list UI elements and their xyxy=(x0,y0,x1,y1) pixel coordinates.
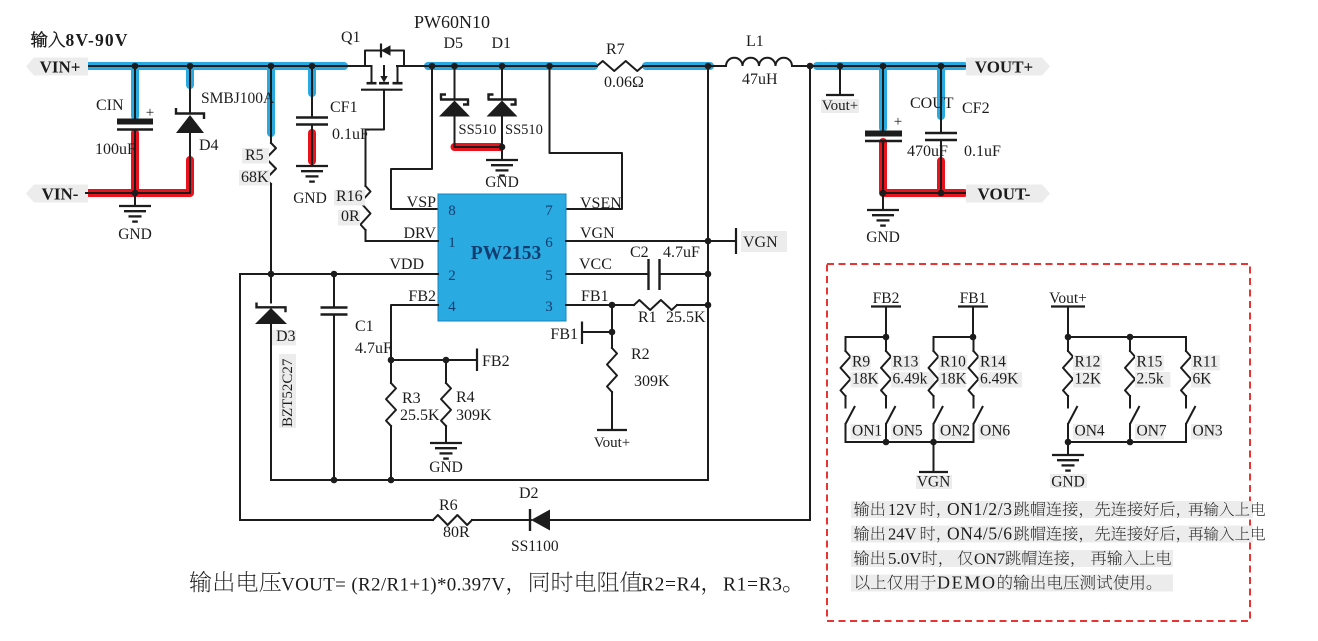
switch ON3 xyxy=(1186,406,1196,424)
junction VDD C1 xyxy=(331,271,338,278)
svg-text:C1: C1 xyxy=(355,318,374,335)
formula text xyxy=(190,571,281,592)
net label VIN- xyxy=(26,185,88,203)
switch ON7 xyxy=(1130,406,1140,424)
net flag FB1 xyxy=(611,305,613,332)
resistor R12 12K xyxy=(1067,337,1069,351)
svg-text:0R: 0R xyxy=(341,208,360,225)
svg-text:VCC: VCC xyxy=(579,256,612,273)
blue highlight CIN lead xyxy=(131,66,139,116)
svg-text:R3: R3 xyxy=(402,390,421,407)
svg-text:VOUT+: VOUT+ xyxy=(975,58,1033,77)
svg-text:R9: R9 xyxy=(852,354,870,371)
svg-text:CF1: CF1 xyxy=(330,99,358,116)
svg-text:18K: 18K xyxy=(852,371,880,388)
net flag FB2 xyxy=(476,349,478,372)
wire VSP sense xyxy=(391,66,438,209)
wire lower reference bus xyxy=(271,479,708,481)
svg-text:25.5K: 25.5K xyxy=(400,407,440,424)
svg-text:4.7uF: 4.7uF xyxy=(663,244,700,261)
dashed demo box xyxy=(827,264,1250,621)
svg-text:GND: GND xyxy=(429,459,463,476)
svg-text:ON3: ON3 xyxy=(1193,423,1223,440)
svg-text:R10: R10 xyxy=(940,354,966,371)
svg-text:VGN: VGN xyxy=(580,225,615,242)
junction CF2 bottom xyxy=(938,190,945,197)
resistor R7 0.06 xyxy=(597,61,643,71)
svg-text:R13: R13 xyxy=(893,354,919,371)
svg-text:R1=R3: R1=R3 xyxy=(723,575,782,596)
blue highlight CF2 stub xyxy=(937,66,945,116)
net label VIN+ xyxy=(26,58,88,76)
svg-text:VIN+: VIN+ xyxy=(40,58,81,77)
resistor R10 18K xyxy=(933,337,935,351)
wire demo GND bus xyxy=(1068,441,1186,443)
junction rail VSEN xyxy=(546,63,553,70)
svg-text:FB2: FB2 xyxy=(408,288,436,305)
wire FB2 bus xyxy=(391,359,477,361)
svg-text:SMBJ100A: SMBJ100A xyxy=(201,90,275,107)
svg-text:12V: 12V xyxy=(888,500,917,519)
op-amp U1 PW2153 xyxy=(438,194,566,321)
svg-text:FB2: FB2 xyxy=(482,353,510,370)
svg-text:309K: 309K xyxy=(456,407,492,424)
svg-text:SS1100: SS1100 xyxy=(511,538,559,555)
svg-text:SS510: SS510 xyxy=(459,122,497,138)
diode D1 SS510 xyxy=(501,66,503,100)
svg-text:FB2: FB2 xyxy=(873,290,900,307)
svg-text:D5: D5 xyxy=(444,35,464,52)
svg-text:R14: R14 xyxy=(980,354,1006,371)
svg-text:80R: 80R xyxy=(443,524,470,541)
svg-text:CIN: CIN xyxy=(96,97,124,114)
note line 2 xyxy=(851,526,1253,543)
red highlight CIN lead xyxy=(131,133,139,192)
svg-text:5: 5 xyxy=(545,268,553,284)
svg-text:D2: D2 xyxy=(519,485,539,502)
net label VOUT- xyxy=(966,185,1050,203)
wire rail R7 to L1 xyxy=(643,65,726,67)
blue highlight CF1 stub xyxy=(308,66,316,93)
svg-text:D3: D3 xyxy=(276,328,296,345)
svg-text:DEMO: DEMO xyxy=(937,573,995,593)
junction rail D1 xyxy=(499,63,506,70)
svg-text:GND: GND xyxy=(485,174,519,191)
red highlight COUT lead xyxy=(879,142,887,192)
junction D5 anode bar xyxy=(455,146,503,148)
capacitor C2 4.7uF xyxy=(647,259,649,290)
svg-text:4: 4 xyxy=(448,299,456,315)
svg-text:VGN: VGN xyxy=(917,474,951,491)
note line 4 xyxy=(851,575,1173,592)
blue highlight VOUT+ rail xyxy=(817,62,964,70)
junction rail D5 xyxy=(451,63,458,70)
junction CIN bottom xyxy=(132,190,139,197)
svg-text:0.06Ω: 0.06Ω xyxy=(604,74,644,91)
wire Q1 gate lead xyxy=(366,90,385,186)
wire VIN- rail xyxy=(86,192,190,194)
red highlight VOUT- rail xyxy=(883,189,964,197)
junction FB2 bus left xyxy=(388,357,395,364)
svg-text:FB1: FB1 xyxy=(960,290,987,307)
svg-text:VIN-: VIN- xyxy=(42,185,79,204)
svg-text:R11: R11 xyxy=(1193,354,1218,371)
svg-text:DRV: DRV xyxy=(404,225,437,242)
wire VDD xyxy=(240,273,438,275)
svg-text:+: + xyxy=(146,105,154,121)
svg-text:ON1: ON1 xyxy=(852,423,882,440)
svg-text:R2=R4: R2=R4 xyxy=(641,575,700,596)
svg-text:Vout+: Vout+ xyxy=(1049,290,1087,307)
svg-text:VOUT-: VOUT- xyxy=(978,185,1031,204)
switch ON4 xyxy=(1068,406,1078,424)
svg-text:R1: R1 xyxy=(638,309,657,326)
junction CF1 top xyxy=(309,63,316,70)
svg-text:BZT52C27: BZT52C27 xyxy=(280,358,296,427)
wire rail L1 to VOUT+ xyxy=(792,65,967,67)
svg-text:ON4/5/6: ON4/5/6 xyxy=(947,524,1012,544)
svg-text:D4: D4 xyxy=(199,137,219,154)
switch ON6 xyxy=(974,406,984,424)
svg-text:100uF: 100uF xyxy=(95,141,136,158)
resistor R13 6.49k xyxy=(885,337,887,351)
blue highlight VIN+ rail xyxy=(88,62,344,70)
svg-text:ON7: ON7 xyxy=(1137,423,1167,440)
resistor R4 309K xyxy=(445,360,447,383)
svg-text:2.5k: 2.5k xyxy=(1137,371,1164,388)
svg-text:24V: 24V xyxy=(888,525,917,544)
wire demo VGN bus xyxy=(846,441,974,443)
svg-text:R6: R6 xyxy=(439,497,458,514)
svg-text:GND: GND xyxy=(293,190,327,207)
red highlight D5 D1 anode bar xyxy=(455,143,501,151)
diode D5 SS510 xyxy=(454,66,456,100)
resistor R2 309K xyxy=(611,332,613,348)
svg-text:0.1uF: 0.1uF xyxy=(964,143,1001,160)
svg-text:0.1uF: 0.1uF xyxy=(332,126,369,143)
wire VCC xyxy=(566,273,649,275)
title 输入8V-90V xyxy=(31,31,65,47)
svg-text:SS510: SS510 xyxy=(505,122,543,138)
blue highlight switch-node rail xyxy=(428,62,594,70)
wire FB1 xyxy=(566,304,634,306)
junction FB2 bus R4 xyxy=(443,357,450,364)
ground GND catch diodes xyxy=(501,147,503,159)
wire FB2 demo bus xyxy=(846,336,887,338)
capacitor CF1 0.1uF xyxy=(311,66,313,118)
net flag Vout+ rail xyxy=(839,66,841,95)
svg-text:6K: 6K xyxy=(1193,371,1213,388)
svg-text:68K: 68K xyxy=(241,169,269,186)
ground GND R4 xyxy=(430,442,462,444)
junction C1 bottom xyxy=(331,477,338,484)
svg-text:R12: R12 xyxy=(1075,354,1101,371)
junction R3 bottom xyxy=(388,477,395,484)
transistor Q1 PW60N10 xyxy=(365,51,404,67)
svg-text:FB1: FB1 xyxy=(550,326,578,343)
resistor R16 0R xyxy=(361,186,371,230)
ground GND CF1 xyxy=(296,165,328,167)
switch ON5 xyxy=(886,406,896,424)
resistor R1 25.5K xyxy=(634,300,677,310)
junction CF2 top xyxy=(938,63,945,70)
svg-text:Vout+: Vout+ xyxy=(822,98,859,114)
junction FB1 xyxy=(609,302,616,309)
svg-text:CF2: CF2 xyxy=(962,100,990,117)
junction switch node xyxy=(705,63,712,70)
capacitor CF2 0.1uF xyxy=(940,66,942,133)
svg-text:D1: D1 xyxy=(492,35,512,52)
svg-text:ON6: ON6 xyxy=(980,423,1010,440)
wire Vout vertical bus xyxy=(809,66,811,520)
svg-text:3: 3 xyxy=(545,299,553,315)
resistor R14 6.49K xyxy=(973,337,975,351)
svg-text:18K: 18K xyxy=(940,371,968,388)
wire VDD feed bus xyxy=(239,274,241,520)
svg-text:25.5K: 25.5K xyxy=(666,309,706,326)
wire Vout+ demo bus xyxy=(1068,336,1186,338)
junction COUT top xyxy=(880,63,887,70)
svg-text:6: 6 xyxy=(545,235,553,251)
svg-text:6.49k: 6.49k xyxy=(893,371,928,388)
blue highlight D4 stub xyxy=(186,66,194,85)
junction VDD R5 xyxy=(268,271,275,278)
resistor R6 80R xyxy=(433,515,472,525)
svg-text:2: 2 xyxy=(448,268,456,284)
wire VSEN sense xyxy=(550,66,623,209)
blue highlight R5 stub xyxy=(267,66,275,133)
svg-text:VGN: VGN xyxy=(743,234,778,251)
svg-text:VOUT= (R2/R1+1)*0.397V: VOUT= (R2/R1+1)*0.397V xyxy=(281,575,505,596)
capacitor COUT 470uF xyxy=(882,66,884,131)
resistor R15 2.5k xyxy=(1129,337,1131,351)
svg-text:Vout+: Vout+ xyxy=(594,435,631,451)
svg-text:VSP: VSP xyxy=(407,194,436,211)
net flag VGN demo xyxy=(933,442,935,472)
wire FB1 demo bus xyxy=(934,336,974,338)
svg-text:Q1: Q1 xyxy=(341,29,361,46)
diode D3 BZT52C27 xyxy=(270,274,272,303)
svg-text:R16: R16 xyxy=(336,188,363,205)
svg-text:+: + xyxy=(894,114,902,130)
wire DRV xyxy=(366,240,439,242)
red highlight CF2 lead xyxy=(937,161,945,192)
resistor R3 25.5K xyxy=(390,360,392,383)
red highlight VIN- rail xyxy=(88,160,190,193)
switch ON1 xyxy=(846,406,856,424)
svg-text:5.0V: 5.0V xyxy=(888,549,922,568)
capacitor CIN xyxy=(134,66,136,118)
blue highlight COUT lead xyxy=(879,66,887,128)
resistor R11 6K xyxy=(1185,337,1187,351)
wire bootstrap left xyxy=(240,519,433,521)
junction R1 bus xyxy=(705,302,712,309)
svg-text:GND: GND xyxy=(118,226,152,243)
junction VGN bus xyxy=(705,238,712,245)
svg-text:8V-90V: 8V-90V xyxy=(66,30,128,50)
inductor L1 47uH xyxy=(726,58,792,66)
net flag Vout+ R2 xyxy=(597,429,627,431)
red highlight CF1 lead xyxy=(308,133,316,161)
junction CIN top xyxy=(132,63,139,70)
svg-text:FB1: FB1 xyxy=(581,288,609,305)
svg-text:ON7: ON7 xyxy=(974,551,1005,568)
net flag VGN xyxy=(741,231,787,252)
svg-text:R2: R2 xyxy=(631,346,650,363)
junction COUT bottom xyxy=(880,190,887,197)
svg-text:GND: GND xyxy=(866,229,900,246)
junction rail VSP xyxy=(429,63,436,70)
wire FB2 xyxy=(391,305,438,360)
svg-text:R4: R4 xyxy=(456,389,475,406)
svg-text:309K: 309K xyxy=(634,373,670,390)
svg-text:7: 7 xyxy=(545,203,553,219)
svg-text:8: 8 xyxy=(448,203,456,219)
svg-text:R7: R7 xyxy=(606,41,625,58)
svg-text:L1: L1 xyxy=(746,33,764,50)
svg-text:R5: R5 xyxy=(245,147,264,164)
ground GND input xyxy=(134,193,136,205)
blue highlight rail after R7 xyxy=(646,62,710,70)
ground GND output xyxy=(882,193,884,209)
wire switch-node vertical bus xyxy=(707,66,709,480)
svg-text:ON5: ON5 xyxy=(893,423,923,440)
svg-text:PW60N10: PW60N10 xyxy=(414,12,490,32)
svg-text:ON1/2/3: ON1/2/3 xyxy=(947,499,1012,519)
junction C2 bus xyxy=(705,271,712,278)
junction R5 top xyxy=(268,63,275,70)
svg-text:ON2: ON2 xyxy=(940,423,970,440)
note line 1 xyxy=(851,501,1253,518)
svg-text:VDD: VDD xyxy=(389,256,424,273)
svg-text:4.7uF: 4.7uF xyxy=(355,340,392,357)
resistor R9 18K xyxy=(845,337,847,351)
diode D4 SMBJ100A xyxy=(189,66,191,113)
ground GND demo xyxy=(1067,442,1069,454)
wire VGN xyxy=(566,240,736,242)
svg-text:VSEN: VSEN xyxy=(580,195,622,212)
junction L1 output xyxy=(807,63,814,70)
svg-text:C2: C2 xyxy=(630,244,649,261)
svg-text:GND: GND xyxy=(1051,474,1085,491)
svg-text:12K: 12K xyxy=(1075,371,1103,388)
svg-text:1: 1 xyxy=(448,235,456,251)
diode D2 SS1100 xyxy=(529,509,531,531)
svg-text:ON4: ON4 xyxy=(1075,423,1105,440)
wire VOUT- rail xyxy=(883,192,966,194)
junction D4 top xyxy=(187,63,194,70)
svg-text:COUT: COUT xyxy=(910,95,954,112)
wire VIN+ rail xyxy=(86,65,371,67)
net label VOUT+ xyxy=(966,58,1050,76)
note line 3 xyxy=(851,550,1173,567)
svg-text:R15: R15 xyxy=(1137,354,1163,371)
resistor R5 68K xyxy=(270,66,272,143)
wire rail Q1 to R7 xyxy=(397,65,597,67)
svg-text:6.49K: 6.49K xyxy=(980,371,1019,388)
svg-text:PW2153: PW2153 xyxy=(471,243,542,264)
svg-text:47uH: 47uH xyxy=(742,71,778,88)
capacitor C1 4.7uF xyxy=(333,274,335,308)
switch ON2 xyxy=(934,406,944,424)
